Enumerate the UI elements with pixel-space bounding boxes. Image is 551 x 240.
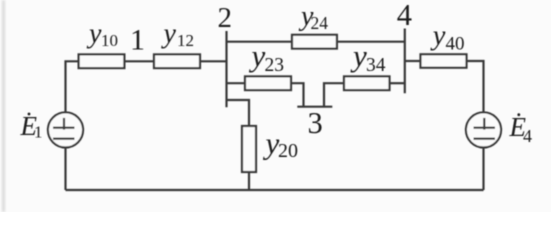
resistor y10	[79, 54, 125, 68]
wire node3 stub to y34	[324, 83, 344, 107]
svg-text:4: 4	[397, 0, 412, 32]
resistor y40	[421, 54, 467, 67]
wire bottom rail	[66, 189, 484, 191]
node 4 bar	[404, 29, 406, 94]
source E4 plus	[474, 127, 496, 129]
wire node4 to y40	[405, 60, 421, 62]
wire E4 bottom	[482, 147, 484, 190]
svg-text:12: 12	[177, 31, 194, 50]
wire y24 to node 4	[337, 41, 405, 43]
source E1 plus	[53, 127, 75, 129]
source E4 circle	[466, 112, 501, 147]
svg-text:10: 10	[101, 31, 118, 50]
node 2 bar	[225, 31, 227, 107]
svg-text:y: y	[249, 38, 266, 73]
wire y12 to node 2	[200, 60, 227, 62]
wire y10 to y12 via node 1	[124, 60, 154, 62]
resistor y24	[292, 35, 337, 49]
source E1 minus	[53, 138, 75, 140]
wire top-left corner to y10	[66, 61, 79, 112]
wire y34 to node 4	[390, 82, 405, 84]
svg-text:y: y	[350, 38, 367, 73]
svg-text:3: 3	[308, 106, 323, 140]
resistor y34	[344, 76, 390, 90]
source E1 circle	[48, 112, 83, 147]
wire E1 bottom	[64, 147, 66, 190]
svg-text:40: 40	[446, 33, 465, 54]
svg-text:1: 1	[130, 24, 145, 57]
wire node2 to y23	[227, 82, 246, 84]
source E4 minus	[474, 138, 496, 140]
svg-text:1: 1	[34, 123, 43, 142]
wire node2 jog to y20	[227, 100, 250, 126]
resistor y12	[154, 54, 200, 68]
wire node2 to y24	[227, 41, 293, 43]
resistor y20	[242, 126, 256, 172]
svg-text:4: 4	[523, 126, 532, 146]
wire y23 to node3 stub	[291, 83, 304, 107]
svg-text:y: y	[430, 21, 446, 52]
wire y40 to right corner down to E4	[467, 61, 484, 112]
node 3 bar	[297, 106, 332, 108]
svg-text:34: 34	[366, 55, 386, 76]
svg-text:23: 23	[265, 55, 285, 76]
svg-text:y: y	[263, 126, 280, 161]
resistor y23	[245, 76, 291, 90]
svg-text:2: 2	[218, 2, 233, 34]
wire y20 to bottom	[248, 172, 250, 190]
svg-text:20: 20	[278, 140, 298, 162]
svg-text:y: y	[161, 19, 177, 50]
page left edge shading	[2, 0, 5, 212]
svg-text:y: y	[86, 19, 102, 50]
svg-text:24: 24	[311, 13, 329, 33]
